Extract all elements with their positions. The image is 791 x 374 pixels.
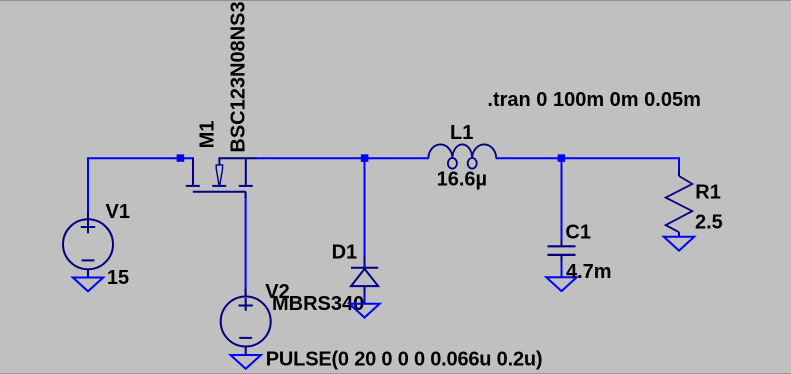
ground (V2) bbox=[231, 355, 261, 369]
diode D1 bbox=[351, 256, 378, 295]
wire: junction to M1 drain bbox=[180, 157, 193, 159]
svg-text:15: 15 bbox=[107, 267, 129, 289]
svg-text:M1: M1 bbox=[197, 121, 219, 149]
ground (D1) bbox=[349, 304, 379, 318]
wire: D1 anode to ground bbox=[364, 286, 366, 304]
svg-text:BSC123N08NS3: BSC123N08NS3 bbox=[228, 1, 250, 152]
svg-text:V1: V1 bbox=[106, 201, 130, 223]
wire: R1 top vertical bbox=[678, 157, 680, 176]
svg-text:4.7m: 4.7m bbox=[566, 261, 612, 283]
svg-text:D1: D1 bbox=[332, 241, 358, 263]
voltage source V2 bbox=[221, 288, 271, 355]
svg-text:L1: L1 bbox=[450, 122, 473, 144]
inductor L1 bbox=[428, 144, 496, 168]
capacitor C1 bbox=[548, 241, 576, 262]
junction: switch node square bbox=[361, 154, 369, 162]
svg-text:R1: R1 bbox=[695, 181, 721, 203]
ground (R1) bbox=[664, 237, 694, 251]
wire: C1 bottom to ground bbox=[561, 256, 563, 277]
voltage source V1 bbox=[63, 212, 113, 278]
transistor M1 (NMOS, rotated) bbox=[186, 157, 257, 198]
wire: output node down to C1 bbox=[561, 158, 563, 245]
wire: L1 to R1 corner bbox=[496, 157, 679, 159]
svg-text:2.5: 2.5 bbox=[695, 212, 723, 234]
wire: M1 gate down to V2 bbox=[245, 192, 247, 297]
top border line bbox=[0, 0, 791, 1]
svg-text:.tran 0 100m 0m 0.05m: .tran 0 100m 0m 0.05m bbox=[487, 89, 700, 111]
ground (V1) bbox=[73, 278, 103, 292]
svg-text:16.6µ: 16.6µ bbox=[437, 168, 487, 190]
M1 body arrow bbox=[216, 165, 222, 185]
wire: V1 vertical up bbox=[87, 157, 89, 211]
svg-text:PULSE(0 20 0 0 0 0.066u 0.2u): PULSE(0 20 0 0 0 0.066u 0.2u) bbox=[266, 348, 543, 370]
wire: M1 source rail to L1 bbox=[256, 157, 429, 159]
bottom border line bbox=[0, 373, 791, 374]
wire: V1 top to input junction bbox=[88, 157, 180, 159]
resistor R1 bbox=[666, 170, 693, 237]
junction: output node square bbox=[558, 154, 566, 162]
wire: switch node down to D1 bbox=[364, 158, 366, 267]
junction: input node square bbox=[177, 154, 185, 162]
svg-text:C1: C1 bbox=[565, 221, 591, 243]
ground (C1) bbox=[546, 277, 576, 291]
